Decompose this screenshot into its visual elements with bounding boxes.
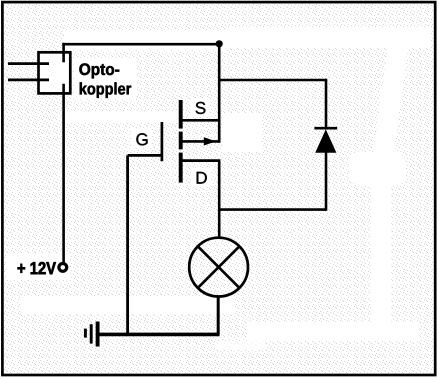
optocoupler U1 box	[39, 52, 71, 93]
node A junction dot	[216, 40, 223, 47]
wire: ground rail	[98, 333, 220, 337]
body arrow	[181, 140, 220, 143]
wire: drain down to lamp	[218, 161, 221, 239]
label S	[196, 102, 206, 114]
optocoupler top pin stub	[62, 43, 65, 62]
drain lead	[181, 159, 220, 162]
optocoupler input lead top	[8, 62, 49, 65]
wire: gate lead horizontal	[128, 154, 162, 157]
diode D1	[314, 79, 337, 211]
ground symbol	[85, 322, 97, 347]
label Opto-koppler	[79, 63, 119, 78]
label D	[197, 172, 207, 184]
label +12V	[18, 262, 56, 274]
wire: optocoupler bottom pin down to +12V terminal	[62, 84, 65, 263]
channel bar top	[179, 100, 183, 129]
wire: node A down to MOSFET source rail	[218, 44, 221, 143]
lamp L1	[189, 238, 248, 297]
wire: optocoupler top to node A	[62, 43, 219, 46]
channel bar bottom	[179, 153, 183, 183]
wire: diode branch top	[219, 79, 326, 82]
source lead	[181, 119, 220, 122]
wire: gate lead vertical down to ground rail	[126, 155, 129, 334]
wire: lamp bottom lead	[217, 296, 220, 335]
channel bar middle	[179, 132, 183, 150]
gate bar	[161, 122, 164, 161]
wire: diode branch bottom	[219, 208, 326, 211]
+12V terminal	[59, 264, 67, 272]
label G	[136, 133, 147, 145]
transistor Q1 (MOSFET)	[162, 100, 221, 183]
optocoupler input lead bottom	[8, 79, 49, 82]
